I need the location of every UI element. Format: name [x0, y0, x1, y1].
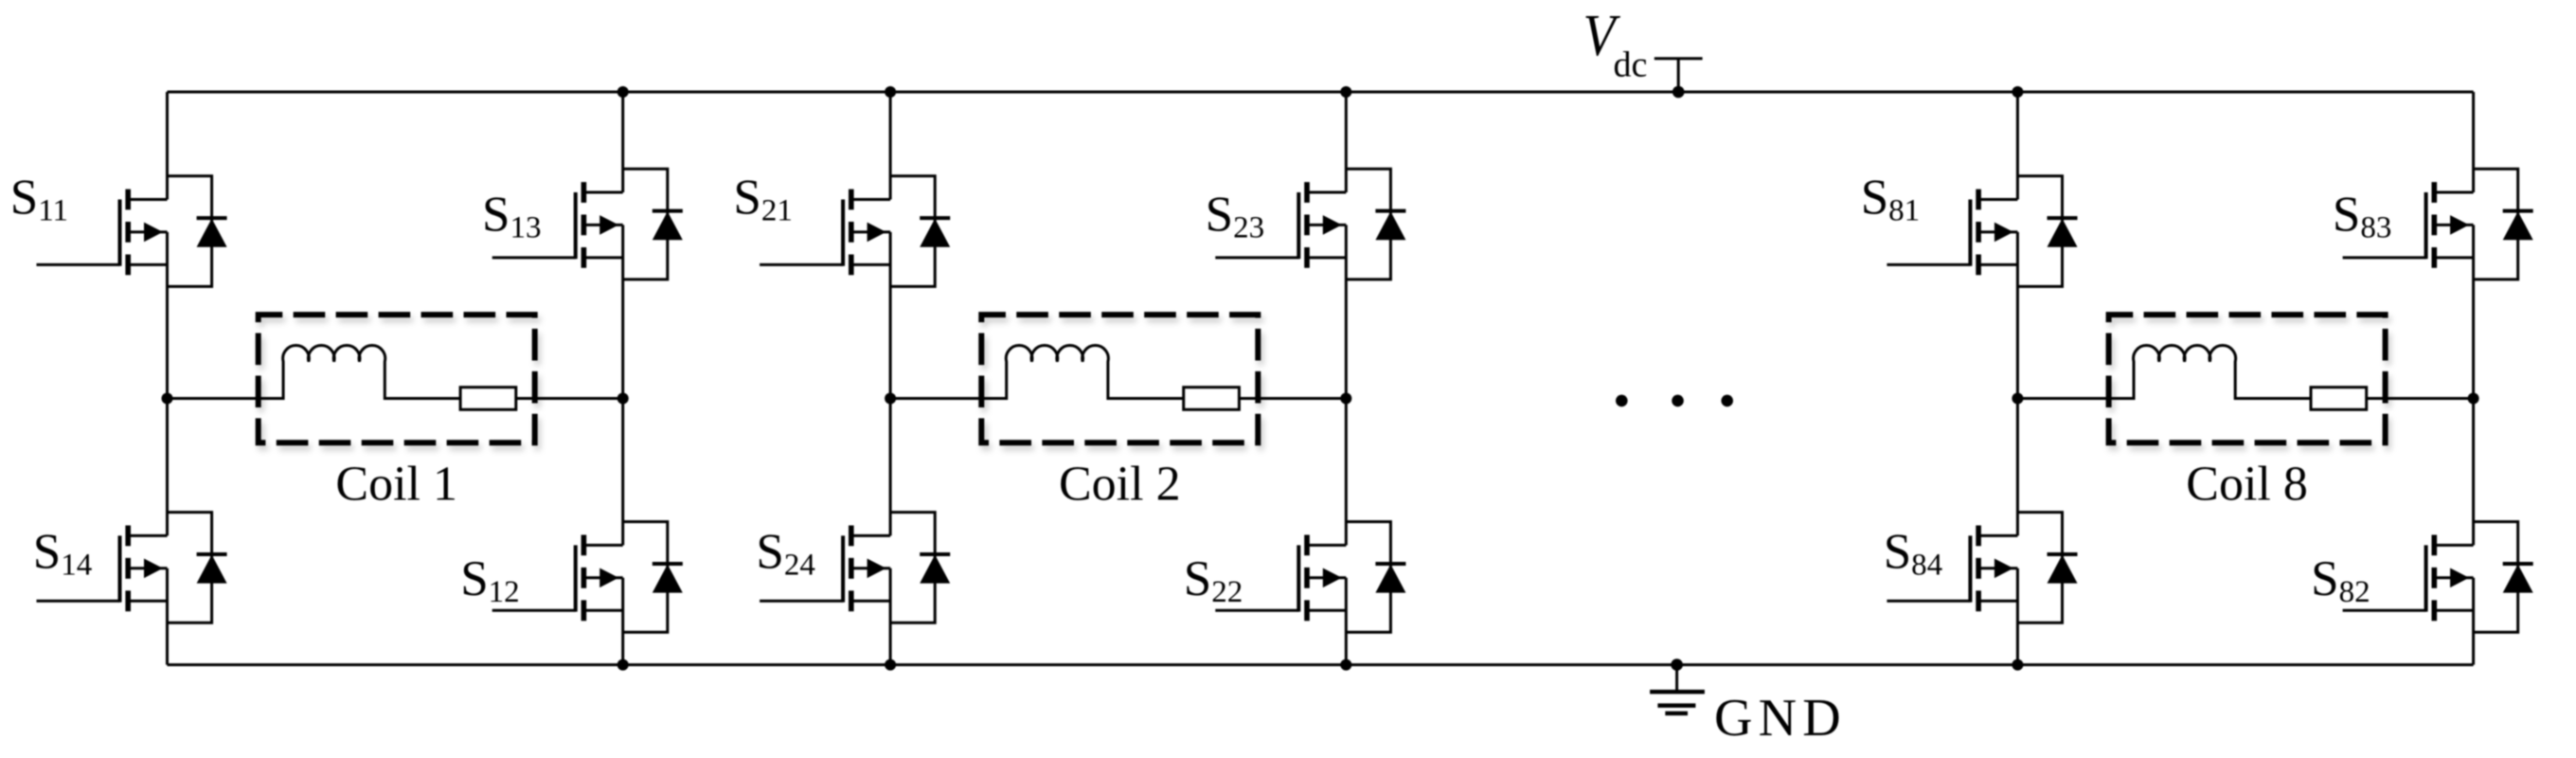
svg-text:Coil 8: Coil 8: [2186, 457, 2308, 511]
svg-text:GND: GND: [1714, 689, 1847, 748]
svg-text:Coil 2: Coil 2: [1059, 457, 1181, 511]
svg-text:Coil 1: Coil 1: [335, 457, 457, 511]
svg-text:dc: dc: [1614, 45, 1648, 85]
